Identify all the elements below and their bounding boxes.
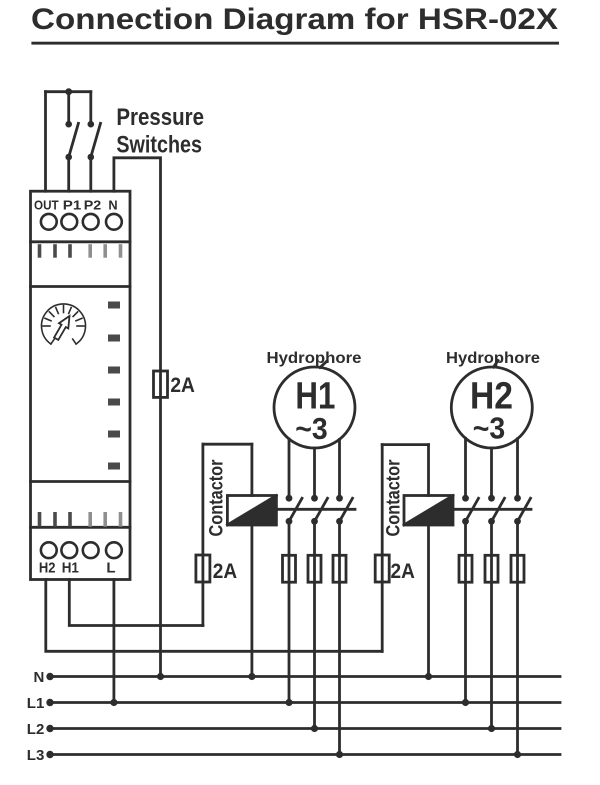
node L2 bus start [46, 725, 53, 732]
fuse K2 phase 1 [459, 555, 472, 582]
device section divider 1 [31, 240, 131, 243]
label Pressure Switches [116, 104, 204, 159]
svg-text:P2: P2 [84, 198, 102, 213]
node L2 / K2 pole 2 [488, 725, 495, 732]
svg-text:L: L [106, 559, 115, 576]
svg-text:Pressure: Pressure [116, 104, 204, 131]
wire H2 terminal to contactor K2 [46, 580, 382, 652]
svg-text:Contactor: Contactor [206, 459, 228, 536]
node L1 / K1 pole 1 [285, 699, 292, 706]
svg-text:N: N [33, 669, 44, 686]
svg-text:2A: 2A [213, 559, 237, 583]
node L1 / K2 pole 1 [462, 699, 469, 706]
bus L1 [50, 701, 560, 704]
wire K2 pole 3 to L3 [516, 521, 519, 754]
node N bus / device N wire [157, 673, 164, 680]
contactor K2 linkage [453, 508, 531, 511]
svg-text:2A: 2A [170, 373, 195, 397]
contactor K1 linkage [276, 508, 355, 511]
fuse K2 phase 2 [485, 555, 498, 582]
pressure gauge icon [41, 304, 85, 344]
device section divider 2 [31, 285, 131, 288]
bus L3 [50, 753, 560, 756]
pressure switch S2 [88, 92, 101, 192]
svg-text:2A: 2A [391, 559, 415, 583]
contactor K2 pole 3 [514, 495, 530, 525]
DIN clip hatching top [38, 244, 123, 258]
node N bus start [46, 673, 53, 680]
title underline rule [31, 42, 559, 45]
node N bus / K2 coil [425, 673, 432, 680]
svg-text:OUT: OUT [34, 198, 59, 213]
terminal N [106, 214, 122, 230]
svg-text:Hydrophore: Hydrophore [446, 350, 540, 367]
wire H1 phase 1 upper [288, 439, 291, 498]
wire K1 pole 1 to L1 [288, 521, 291, 702]
svg-text:H1: H1 [62, 559, 79, 576]
wire contactor K1 coil to N bus [250, 525, 253, 677]
terminal L [106, 542, 122, 558]
terminal spare [83, 542, 99, 558]
wire H2 phase 3 upper [516, 439, 519, 498]
svg-text:P1: P1 [63, 198, 82, 213]
node N bus / K1 coil [248, 673, 255, 680]
terminal OUT [41, 214, 57, 230]
wire H1 phase 3 upper [338, 439, 341, 498]
contactor K1 pole 2 [311, 495, 327, 525]
fuse K2 2A [375, 555, 389, 582]
svg-text:H2: H2 [39, 559, 56, 576]
svg-text:N: N [108, 198, 117, 213]
wire contactor K2 coil to N bus [427, 525, 430, 677]
fuse K1 phase 1 [283, 555, 296, 582]
terminal H2 [41, 542, 57, 558]
contactor K2 pole 1 [462, 495, 478, 525]
pressure switch S1 [65, 92, 78, 192]
svg-text:L2: L2 [27, 721, 45, 738]
fuse K1 2A [196, 555, 210, 582]
terminal P1 [61, 214, 77, 230]
wire L terminal to L1 bus [113, 580, 116, 703]
LED indicator column [108, 302, 120, 470]
terminal P2 [83, 214, 99, 230]
terminal labels H2 H1 L [39, 559, 116, 576]
contactor K1 pole 3 [336, 495, 352, 525]
wire H1 terminal to contactor K1 [69, 580, 203, 626]
wire contactor K2 loop left [381, 445, 384, 652]
wire contactor K1 loop left [201, 444, 204, 625]
wire H1 phase 2 upper [313, 448, 316, 498]
wire H2 phase 2 upper [490, 448, 493, 498]
wire N terminal to N bus [114, 158, 161, 677]
node L3 / K1 pole 3 [336, 751, 343, 758]
node L1 / L terminal wire [110, 699, 117, 706]
wire H2 phase 1 upper [464, 438, 467, 498]
wire pressure switch top bus [46, 90, 91, 93]
wire contactor K2 loop top [382, 443, 428, 446]
bus L2 [50, 727, 560, 730]
leader tick H1 [320, 361, 327, 368]
node junction dot on top bus [65, 88, 72, 95]
contactor K2 coil [404, 496, 453, 526]
node L2 / K1 pole 2 [311, 725, 318, 732]
contactor K1 pole 1 [286, 495, 302, 525]
svg-text:Switches: Switches [116, 132, 202, 159]
device section divider 4 [31, 526, 131, 529]
wire K1 pole 3 to L3 [338, 521, 341, 754]
relay module HSR-02X outline [31, 191, 131, 579]
svg-text:L1: L1 [27, 695, 45, 712]
svg-text:~3: ~3 [473, 411, 506, 446]
leader tick H2 [494, 361, 499, 368]
fuse F1 2A [154, 371, 168, 397]
wire contactor K1 coil feed [250, 444, 253, 495]
wire K1 pole 2 to L2 [313, 521, 316, 728]
bus N [50, 675, 560, 678]
svg-text:~3: ~3 [295, 411, 328, 446]
DIN clip hatching bottom [38, 512, 123, 527]
terminal labels OUT P1 P2 N [34, 198, 118, 213]
svg-text:Contactor: Contactor [383, 459, 405, 536]
wire K2 pole 2 to L2 [490, 521, 493, 728]
wire contactor K2 coil feed [427, 445, 430, 496]
svg-text:Connection Diagram for HSR-02X: Connection Diagram for HSR-02X [31, 3, 558, 36]
svg-text:Hydrophore: Hydrophore [267, 350, 362, 367]
contactor K1 coil [227, 496, 276, 526]
node L3 bus start [46, 751, 53, 758]
device section divider 3 [31, 480, 131, 483]
hydrophore motor H1 [274, 367, 355, 448]
fuse K1 phase 3 [333, 555, 346, 582]
wire K2 pole 1 to L1 [464, 521, 467, 702]
svg-text:L3: L3 [27, 747, 45, 764]
node L1 bus start [46, 699, 53, 706]
wire contactor K1 loop top [203, 443, 252, 446]
fuse K2 phase 3 [511, 555, 524, 582]
terminal H1 [61, 542, 77, 558]
hydrophore motor H2 [451, 367, 532, 448]
wire OUT terminal to top bus [44, 92, 47, 192]
node L3 / K2 pole 3 [514, 751, 521, 758]
contactor K2 pole 2 [488, 495, 504, 525]
fuse K1 phase 2 [308, 555, 321, 582]
